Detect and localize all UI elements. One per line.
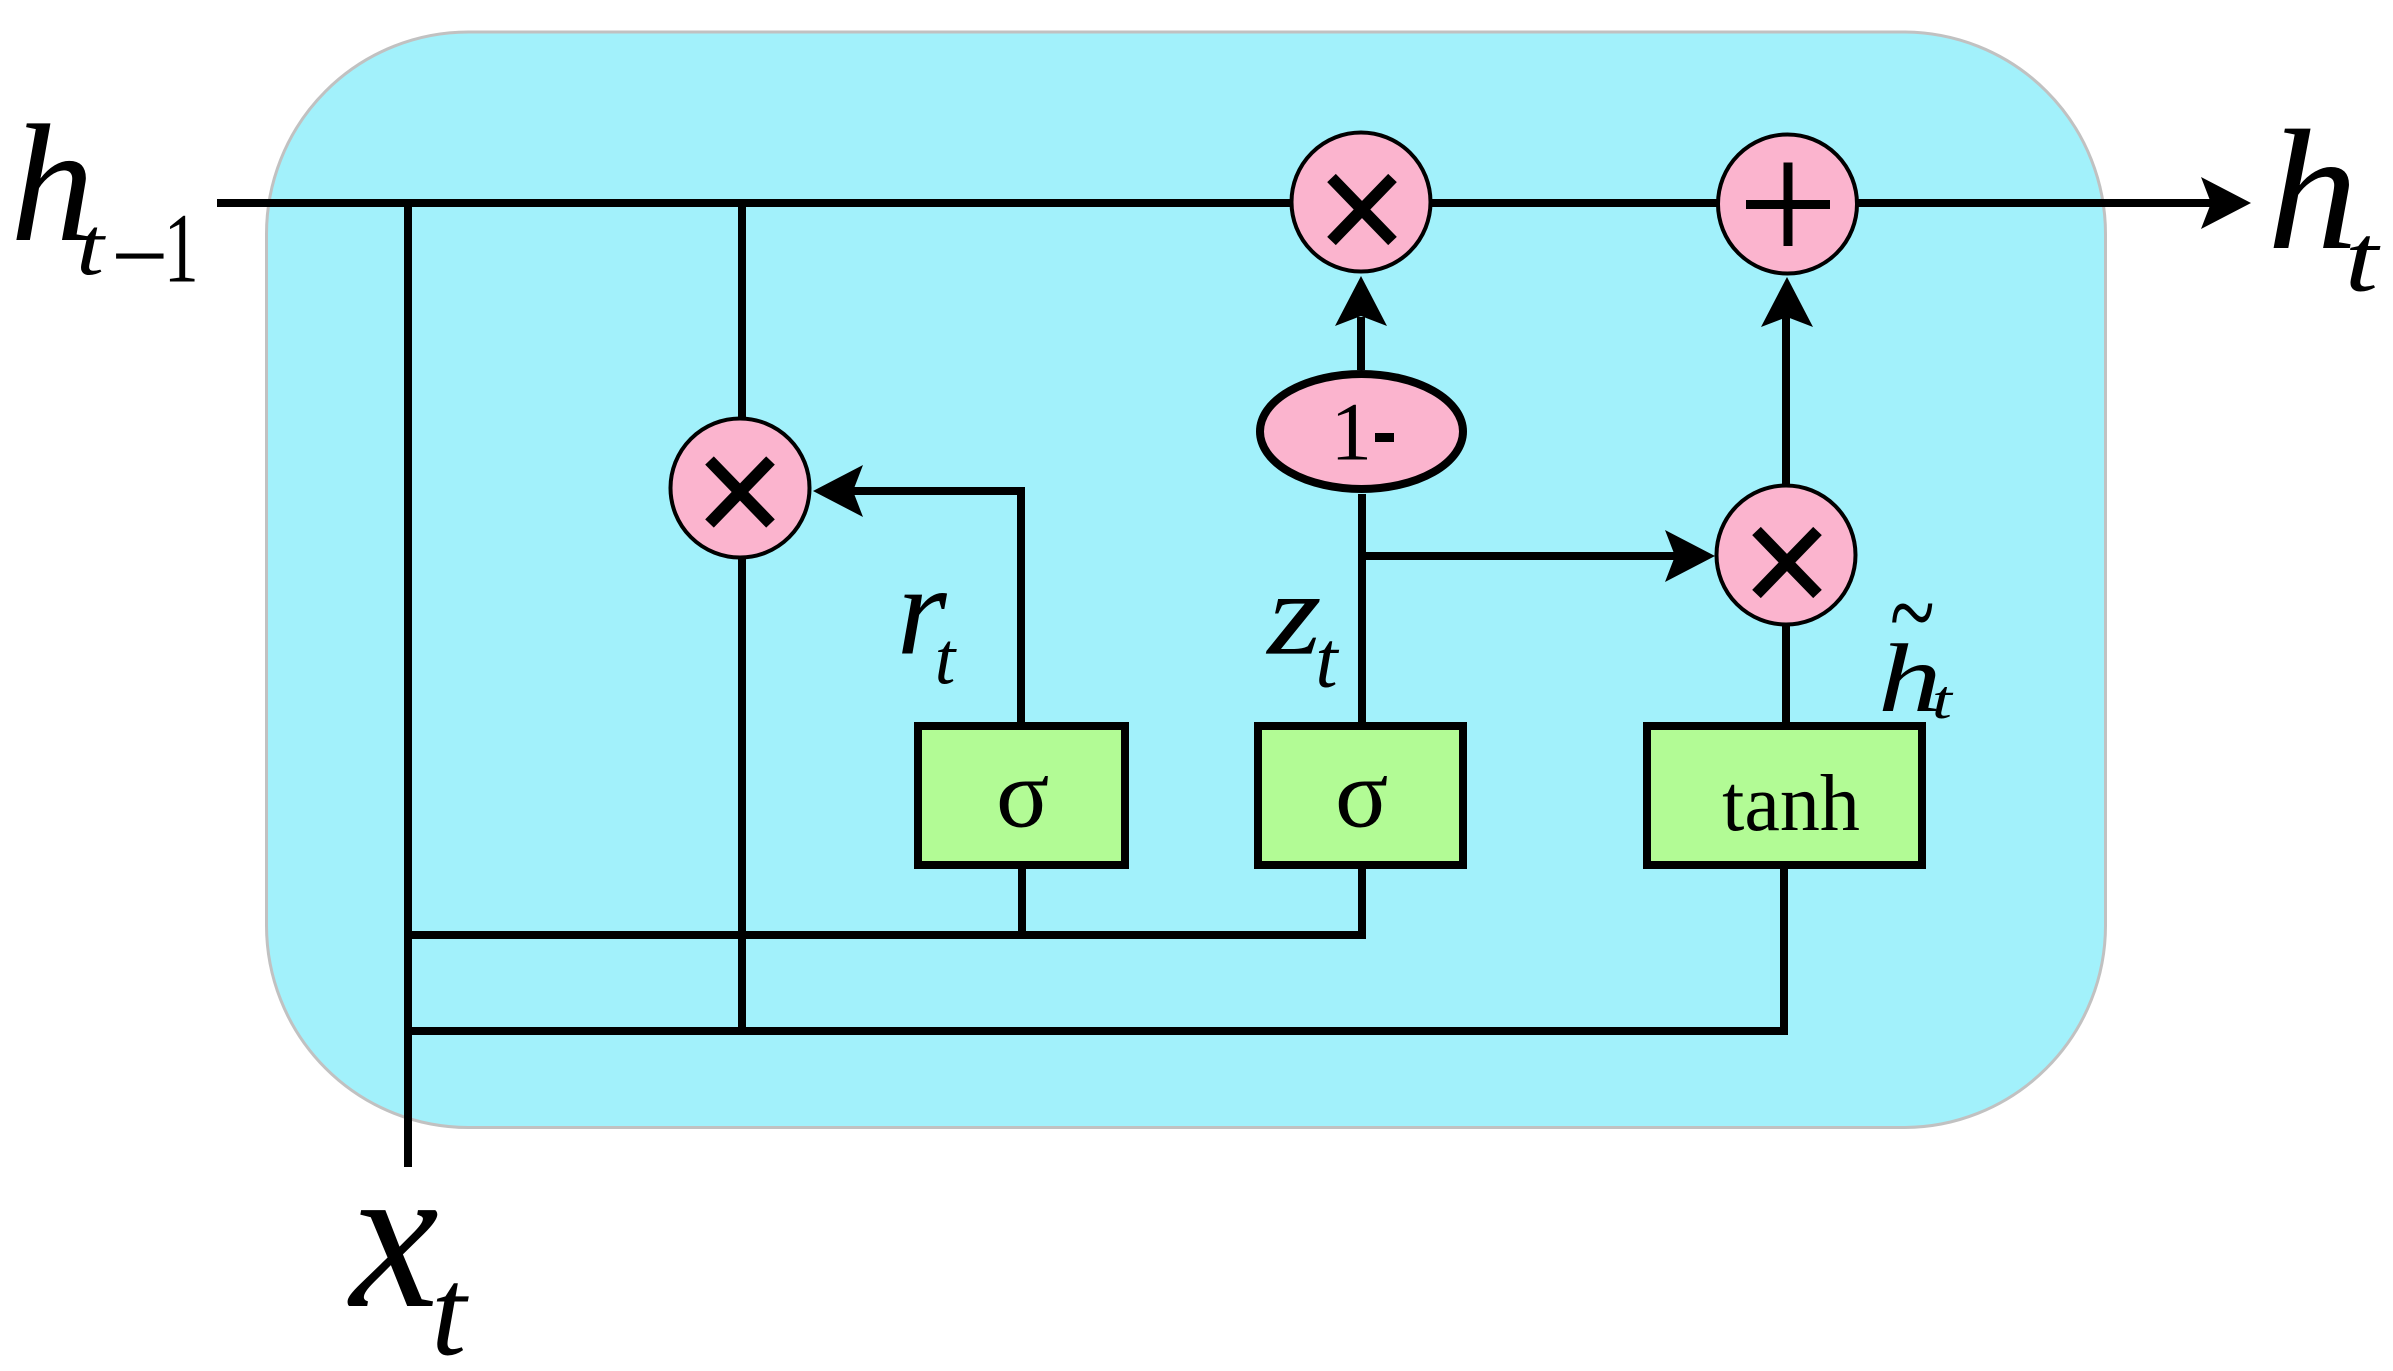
multiply node (candidate) bbox=[1717, 486, 1856, 625]
svg-text:tanh: tanh bbox=[1722, 760, 1860, 848]
multiply node (reset gate) bbox=[671, 419, 810, 558]
arrowhead into plus bbox=[1761, 277, 1813, 327]
wire: lower bus 2 (x_t to tanh) bbox=[404, 869, 1784, 1031]
svg-text:t: t bbox=[1315, 617, 1339, 705]
svg-text:1: 1 bbox=[1331, 385, 1373, 477]
arrowhead into candidate multiply bbox=[1665, 530, 1715, 582]
svg-text:z: z bbox=[1265, 549, 1321, 680]
svg-text:t: t bbox=[431, 1243, 469, 1371]
wire: candidate vertical through multiply to plus bbox=[1782, 317, 1790, 722]
svg-text:~: ~ bbox=[1889, 551, 1934, 675]
arrowhead into main multiply bbox=[1335, 276, 1387, 326]
multiply node (update gate on h line) bbox=[1292, 133, 1431, 272]
svg-text:σ: σ bbox=[996, 740, 1049, 849]
arrowhead into reset multiply bbox=[813, 465, 863, 517]
wire: lower bus 1 (gates input) bbox=[404, 931, 1362, 939]
svg-text:t: t bbox=[1932, 669, 1953, 730]
svg-text:x: x bbox=[347, 1121, 439, 1352]
wire: h(t-1) branch vertical (x=408) bbox=[404, 203, 412, 1167]
wire: z_t vertical bbox=[1358, 494, 1366, 722]
wire: z_t branch to candidate multiply bbox=[1362, 552, 1676, 560]
sigma box (reset gate) bbox=[918, 726, 1125, 865]
svg-text:t: t bbox=[935, 619, 958, 701]
arrowhead into h(t) bbox=[2201, 177, 2251, 229]
svg-text:−: − bbox=[111, 200, 169, 313]
svg-text:t: t bbox=[2345, 205, 2381, 312]
wire: main h(t-1) to h(t) line bbox=[217, 199, 2215, 207]
wire: sigma2 bottom stub bbox=[1358, 869, 1366, 939]
wire: branch vertical to reset multiply (x=742) bbox=[738, 203, 746, 1031]
wire: sigma1 bottom stub bbox=[1018, 869, 1026, 935]
1- ellipse node bbox=[1260, 374, 1463, 489]
GRU cell body bbox=[267, 32, 2106, 1128]
wire: 1- to multiply arrow bbox=[1357, 317, 1365, 370]
sigma box (update gate) bbox=[1258, 726, 1463, 865]
plus node bbox=[1718, 135, 1857, 274]
svg-text:σ: σ bbox=[1335, 740, 1388, 849]
tanh box bbox=[1647, 726, 1922, 865]
wire: r_t arrow into reset multiply bbox=[824, 491, 1021, 722]
svg-text:1: 1 bbox=[164, 192, 199, 303]
svg-text:t: t bbox=[76, 200, 106, 292]
